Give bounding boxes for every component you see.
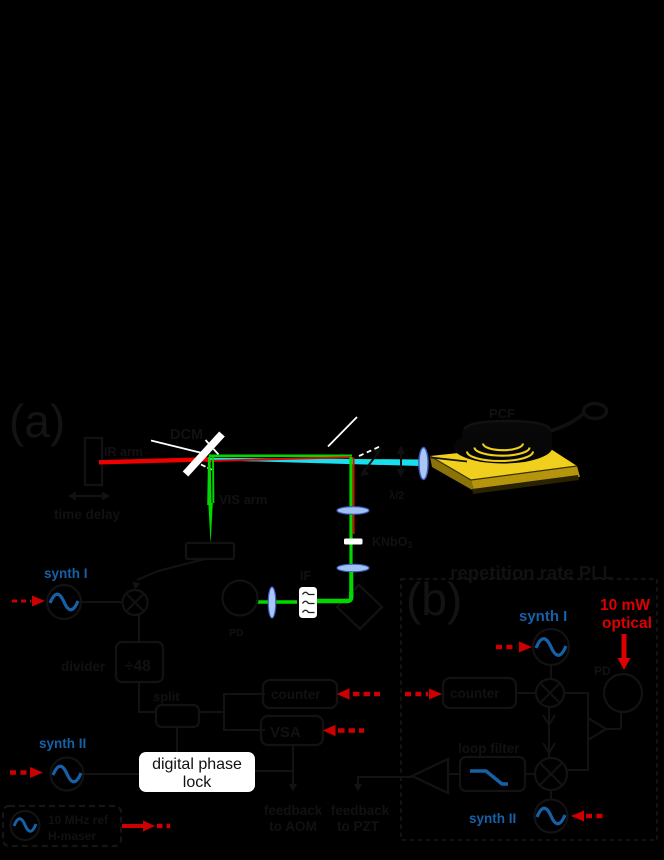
svg-text:λ/2: λ/2	[389, 490, 404, 502]
svg-text:(a): (a)	[9, 395, 65, 447]
svg-text:to PZT: to PZT	[337, 819, 380, 834]
svg-text:KNbO3: KNbO3	[372, 535, 412, 550]
svg-text:÷48: ÷48	[125, 658, 151, 675]
svg-text:synth I: synth I	[44, 566, 88, 581]
svg-text:DCM: DCM	[170, 427, 203, 443]
svg-text:counter: counter	[450, 686, 500, 701]
svg-text:digital phase: digital phase	[152, 756, 242, 773]
svg-text:loop filter: loop filter	[458, 741, 520, 756]
svg-text:VSA: VSA	[270, 724, 301, 741]
svg-text:synth II: synth II	[469, 811, 516, 826]
svg-text:H-maser: H-maser	[48, 829, 96, 843]
svg-text:VIS arm: VIS arm	[219, 492, 267, 507]
svg-text:lock: lock	[183, 774, 212, 791]
svg-text:IR arm: IR arm	[104, 445, 143, 459]
svg-text:optical: optical	[602, 615, 652, 632]
svg-text:10 MHz ref: 10 MHz ref	[48, 813, 109, 827]
svg-text:to AOM: to AOM	[269, 819, 317, 834]
svg-text:divider: divider	[61, 659, 106, 674]
svg-text:split: split	[153, 689, 180, 704]
svg-text:time delay: time delay	[54, 507, 121, 522]
svg-text:feedback: feedback	[331, 803, 390, 818]
svg-text:10 mW: 10 mW	[600, 597, 650, 614]
svg-text:feedback: feedback	[264, 803, 323, 818]
svg-text:PD: PD	[594, 664, 611, 678]
svg-text:PCF: PCF	[489, 406, 515, 421]
svg-text:(b): (b)	[406, 573, 462, 625]
svg-text:PD: PD	[229, 627, 244, 639]
svg-text:synth II: synth II	[39, 736, 86, 751]
svg-text:synth I: synth I	[519, 608, 567, 625]
svg-text:counter: counter	[271, 687, 321, 702]
svg-text:repetition rate PLL: repetition rate PLL	[450, 562, 613, 583]
svg-text:IF: IF	[300, 569, 311, 583]
